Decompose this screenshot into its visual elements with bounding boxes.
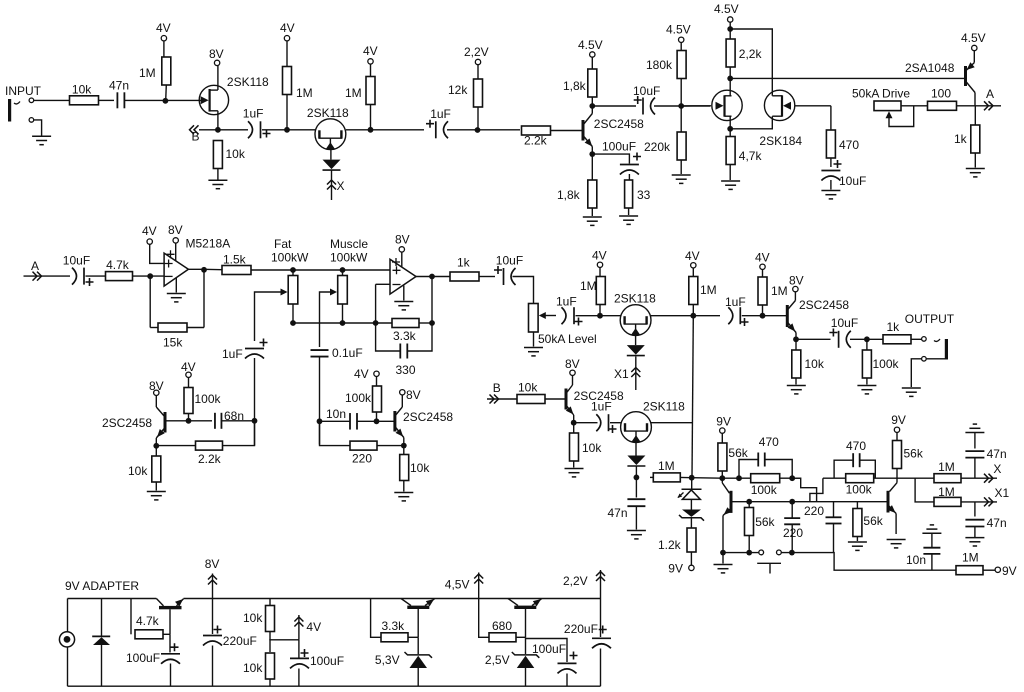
resistor 1M 693 [689,277,698,305]
resistor 56k collector right [893,441,902,469]
svg-text:100k: 100k [751,483,778,497]
svg-text:4.7k: 4.7k [136,614,160,628]
wire zener2 down [525,668,527,686]
wire Fat wiper down [255,292,282,341]
resistor 10k psu top [266,606,275,632]
transistor Q5 2SK184 JFET B [764,90,794,120]
wire 4.7k left up [130,599,132,635]
wire down to 2.2k [223,421,255,446]
wire D4 to D5 [690,499,692,509]
svg-text:4V: 4V [142,224,157,238]
wire 1,8k to ground [591,208,593,216]
supply terminal 4V 2 [284,36,289,41]
capacitor 100uF emitter [620,165,639,175]
wire 9V rail left [68,598,157,600]
wire 1M to LFO [680,476,722,479]
svg-text:10k: 10k [243,611,263,625]
ground 10k Q9 [565,469,584,477]
wire 4.5V to 1,8k [591,57,593,69]
ground 10k Q8 [787,386,806,394]
svg-text:2SK184: 2SK184 [759,134,802,148]
wire 470-2 loop left [834,460,852,478]
wire right collector to left base [810,478,823,502]
svg-text:2,2V: 2,2V [563,574,588,588]
svg-text:680: 680 [492,619,512,633]
wire 4V to +input [150,244,164,263]
svg-text:220: 220 [804,504,824,518]
ground op-amp2 [394,302,413,310]
svg-text:10uF: 10uF [839,174,866,188]
svg-text:33: 33 [637,188,651,202]
wire 10uF to 1k out [850,338,883,340]
svg-text:9V: 9V [668,562,683,576]
svg-text:1,8k: 1,8k [563,79,587,93]
resistor 1M X [934,474,961,483]
svg-text:50kA Drive: 50kA Drive [852,87,910,101]
resistor 470 tap [826,130,835,158]
wire gate Q5 to drive pot [795,105,831,107]
svg-text:10k: 10k [128,464,148,478]
wire 2,2V tap up [600,570,602,599]
node zener top [689,475,695,481]
wire 1M 693 down [692,305,694,316]
wire 1k to jack [911,338,922,340]
wire Q10 to LED [635,443,637,456]
resistor 10k psu bottom [266,653,275,679]
op-amp U1A M5218A [164,253,188,286]
supply terminal 4V Q7 [597,262,602,267]
wire 8V rail [184,598,601,600]
wire Fat bottom [292,304,294,323]
resistor 10k Q9 [570,433,579,461]
svg-text:4,5V: 4,5V [445,578,470,592]
wire to X1 [961,501,997,503]
wire drain Q4 [729,78,731,95]
ground 4,7k [721,181,740,189]
svg-text:1k: 1k [457,256,471,270]
svg-text:100k: 100k [345,391,372,405]
wire to 3.3k [371,599,381,638]
resistor 680 [489,633,516,642]
wire 4.5V to 180k [680,43,682,51]
wire 3.3k to base T2 [408,636,418,638]
svg-text:10k: 10k [226,147,246,161]
svg-text:B: B [192,130,200,144]
connector 4,5V chevrons [474,574,483,584]
wire node to 100k [866,339,868,350]
wire 220uF down [212,646,214,687]
svg-text:0.1uF: 0.1uF [332,346,363,360]
wire 4V to 1M Q7 [599,268,601,278]
node 220-1 bottom [789,550,795,556]
svg-text:10k: 10k [410,461,430,475]
svg-text:4.7k: 4.7k [106,258,130,272]
wire node to 10n [320,420,351,422]
resistor 1k section2 [450,272,479,281]
resistor 100k cross 2 [846,474,874,483]
node after Q2 [368,127,374,133]
resistor 1k collector [971,125,980,153]
svg-text:4.5V: 4.5V [666,23,691,37]
node emitter Q9 [571,420,577,426]
svg-text:3.3k: 3.3k [382,619,406,633]
wire 4.5V down [729,22,731,29]
ground 1,8k emitter [583,217,602,225]
wire 10k to ground [217,169,219,180]
resistor 10k Qf1 [152,456,161,482]
resistor 1M 762 [758,277,767,305]
wire 100k down Qf1 [188,414,190,421]
diode D6 protection [92,635,110,637]
wire diode top [101,599,103,637]
wire base T3 to 100uF3 [526,639,568,663]
wire 100uF to 33 [628,174,630,180]
svg-text:1M: 1M [962,551,979,565]
svg-text:8V: 8V [168,223,183,237]
svg-text:A: A [986,87,994,101]
resistor 100k out [862,350,871,378]
svg-text:56k: 56k [728,446,748,460]
supply terminal 4.5V Q3 [590,52,595,57]
svg-text:1M: 1M [345,86,362,100]
svg-text:15k: 15k [163,336,183,350]
node 68n right [252,418,258,424]
resistor 1M gate bias [162,57,171,85]
supply terminal 4V Qf1 [186,372,191,377]
capacitor 47n X1 [965,520,984,527]
wire 4.5V to drain of Q5 [730,29,772,96]
node sources pair [727,126,733,132]
svg-text:100kW: 100kW [330,251,368,265]
resistor 180k [677,51,686,79]
node emitter Qf1 [153,443,159,449]
wire 1M to gate node [165,85,168,100]
svg-text:1.2k: 1.2k [658,538,682,552]
wire QL emitter rail to ground [722,553,724,564]
ground (up) 47n X [965,424,984,432]
wire 2,2V to 12k [477,65,479,79]
wire to X [961,477,997,479]
wire 1.2k to 9V [690,552,692,565]
supply terminal 8V Q9 [570,370,575,375]
capacitor 1uF level [562,307,575,324]
wire 4V to 1M 2 [286,41,288,67]
node Muscle bottom [340,320,346,326]
capacitor 470 1 [758,453,765,467]
transistor Qf2 2SC2458 [395,395,404,446]
transistor T1 pass NPN [156,599,183,635]
svg-text:1uF: 1uF [243,107,264,121]
svg-text:2SK118: 2SK118 [614,292,656,306]
wire jack sleeve to ground [34,120,42,136]
resistor 12k [474,79,483,107]
svg-text:4.5V: 4.5V [961,31,986,45]
svg-text:47n: 47n [608,506,628,520]
wire 10k to ground [795,378,797,385]
node 100k out [864,336,870,342]
wire emitter Q3 down [591,147,593,155]
svg-text:1M: 1M [938,460,955,474]
supply terminal 9V 56k1 [720,428,725,433]
resistor 3.3k [392,319,419,328]
svg-text:1M: 1M [296,86,313,100]
wire [856,502,858,509]
ground 56k base right [848,542,867,550]
wire [269,599,271,606]
LED D1 under Q2 [323,160,341,170]
wire 10n to base Qf2 [357,420,394,422]
resistor 1M zener [653,473,680,482]
connector X1 chevrons [631,368,640,378]
svg-text:220uF: 220uF [223,634,257,648]
wire 47n X1 to ground [974,527,976,538]
svg-text:100uF: 100uF [602,140,636,154]
supply terminal 8V Q8 [793,286,798,291]
wire 10k Qf2 to ground [403,481,405,492]
transistor Q2 2SK118 JFET lateral [315,119,346,150]
supply terminal 4V op-amp1 [147,239,152,244]
node 3.3k right [429,320,435,326]
connector 4V chevrons [294,617,303,627]
capacitor 220 1 [784,518,800,524]
svg-text:2SC2458: 2SC2458 [799,298,849,312]
zener diode 5,3V [405,652,433,658]
ground (up) 10n [922,525,941,533]
diode D4 (LED indicator) [678,489,702,499]
wire 1uF to node [262,129,286,131]
svg-text:1M: 1M [139,66,156,80]
wire 1k to 10uF [479,276,495,278]
wire 4V to 1M 693 [692,268,694,277]
svg-text:2SC2458: 2SC2458 [403,410,453,424]
resistor 2,2k [726,39,735,67]
wire 470-1 loop right [765,460,792,479]
ground 1k [966,169,985,177]
connector A chevrons [984,101,993,110]
wire jack tip to R 10k [34,99,71,101]
svg-text:56k: 56k [863,514,883,528]
wire left drop to 220 [320,421,351,445]
ground QR emitter [887,540,906,548]
svg-text:M5218A: M5218A [186,237,231,251]
transistor Q1 2SK118 JFET [199,85,228,114]
supply terminal 9V bottom [995,567,1000,572]
svg-text:8V: 8V [209,47,224,61]
wire divider mid [269,632,271,653]
svg-text:10k: 10k [518,381,538,395]
wire 1uF to Q10 [610,422,621,424]
wire [419,322,432,324]
resistor 1,8k collector [588,69,597,97]
svg-text:4V: 4V [156,21,171,35]
svg-text:9V: 9V [716,415,731,429]
wire 56k1 down [721,471,723,478]
capacitor 100uF psu3 [558,663,577,673]
wire 56k2 to switch rail [748,536,750,553]
transistor Qf1 2SC2458 (mirrored) [156,396,165,447]
svg-text:1uF: 1uF [222,347,243,361]
ground Q1 source resistor [208,180,227,188]
wire 4.7k to op-amp [133,275,165,277]
node base Qf2 [374,418,380,424]
capacitor 10uF interstage [643,98,655,115]
supply terminal 4V 762 [760,264,765,269]
svg-text:8V: 8V [565,357,580,371]
supply terminal 8V Q1 [214,60,219,65]
wire switch rail right [781,553,956,571]
wire [376,322,392,324]
svg-text:9V ADAPTER: 9V ADAPTER [65,579,139,593]
potentiometer 50kA Level [529,304,539,333]
wire emitter node to 100uF [592,154,629,163]
svg-text:10n: 10n [326,407,346,421]
transistor QR LFO NPN [888,483,897,534]
wire emitter to 10k [795,339,797,350]
wire Q2 to node [346,129,371,131]
svg-text:X: X [993,462,1001,476]
svg-text:A: A [31,259,39,273]
op-amp U1B M5218A [390,259,416,294]
wire op-amp1 to ground [175,278,177,293]
svg-text:47n: 47n [109,79,129,93]
resistor 10k Qf2 [400,455,409,481]
svg-text:1k: 1k [887,320,901,334]
ground Qf2 [394,493,413,501]
resistor 100k Qf2 [373,386,382,412]
svg-text:X: X [337,179,345,193]
wire 2,2k down [729,67,731,78]
wire base Qf1 [165,420,212,422]
wire collector to 10uF [592,105,636,107]
resistor 15k feedback [158,323,187,332]
resistor 56k base right [853,509,862,537]
push switch SW1 [759,550,764,555]
capacitor 330 [400,344,407,359]
wire 1uF 2 to 2.2k [447,129,520,131]
wire zener1 down [417,668,419,686]
transistor Q4 2SK184 JFET A [712,90,742,120]
wire op-amp1 out [188,268,227,271]
svg-text:10k: 10k [805,357,825,371]
ground op-amp1 [167,294,186,302]
wire 100 to node A out [957,105,1002,107]
wire 1,8k to collector node [591,97,593,106]
wire 220uF2 down [600,649,602,687]
resistor 1,8k emitter [588,180,597,208]
wire 10uF to level pot [513,277,534,304]
svg-text:330: 330 [396,363,416,377]
wire [791,502,793,518]
potentiometer Fat 100kW [288,276,298,305]
wire 4V to 1M [163,41,165,58]
node 47n/1M [634,475,640,481]
svg-text:220: 220 [783,526,803,540]
svg-text:9V: 9V [1002,564,1017,578]
svg-text:47n: 47n [987,447,1007,461]
wire 4V to 100k Qf2 [376,377,378,387]
wire base T3 to zener2 [525,637,527,654]
wire collector line left [722,477,800,479]
wire [150,327,158,329]
wire node to 47n [635,477,637,497]
resistor 220k [677,132,686,160]
wire 1uF to base Q8 [742,315,786,317]
svg-text:1M: 1M [580,279,597,293]
node Fat bottom [290,320,296,326]
transistor T2 NPN [401,599,435,638]
svg-text:B: B [493,381,501,395]
wire 10k to C 47n [99,99,115,101]
wire 10k Qf1 to ground [155,482,157,491]
resistor 1M X1 [934,497,961,506]
resistor 1M 9V [956,566,983,575]
svg-text:10uF: 10uF [63,254,90,268]
wire inverting input drop [375,284,377,323]
svg-text:1uF: 1uF [591,400,612,414]
resistor 1.2k [687,528,696,552]
supply terminal 4V [161,36,166,41]
wire feedback right [203,270,205,328]
resistor 1.5k [222,266,251,275]
resistor 56k base left [745,508,754,536]
svg-text:1,8k: 1,8k [557,188,581,202]
resistor 10k source Q1 [213,141,222,169]
wire level pot to ground [533,332,535,347]
wire op-amp2 out [416,276,450,278]
wire 8V tap up [212,574,214,599]
svg-text:100uF: 100uF [126,651,160,665]
svg-text:1uF: 1uF [725,295,746,309]
wire pot to 100 [901,105,930,107]
wire 220k to ground [680,160,682,174]
svg-text:2SA1048: 2SA1048 [905,61,955,75]
wire [650,476,653,478]
svg-text:4V: 4V [280,21,295,35]
ground 47n X1 [965,538,984,546]
wire node to C 1uF 2 [371,129,425,131]
connector X1 out chevrons [984,497,993,506]
wire 47n to gate of Q1 [125,99,206,101]
svg-text:4.5V: 4.5V [578,38,603,52]
wire 33 to ground [628,208,630,215]
supply terminal 2,2V [475,59,480,64]
wire 100uF psu1 down [170,664,172,687]
connector A in chevrons [33,272,42,281]
DC jack [59,632,74,647]
svg-text:470: 470 [759,435,779,449]
capacitor 0.1uF [311,350,329,357]
wire left edge [67,599,69,687]
wire feedback left [149,276,151,327]
wire 4V to 1M 762 [762,270,764,278]
wire 8V to drain Q1 [217,66,219,91]
wire 8V to op-amp2 [401,252,403,267]
wire 180k to node [680,79,682,107]
wire 680 to base T3 [516,636,526,638]
node divider [678,103,684,109]
wire node to D4 [691,478,693,490]
wire node B to C 1uF [218,129,248,131]
ground output jack [902,388,921,396]
resistor 4.7k psu [135,630,163,639]
wire 8V to op-amp top [175,243,177,261]
wire [833,502,835,518]
wire A line to 1k [974,106,976,125]
svg-text:1k: 1k [954,132,968,146]
node emitter Qf2 [401,443,407,449]
wire jack sleeve to ground [911,359,921,387]
transistor T3 NPN [508,599,542,638]
